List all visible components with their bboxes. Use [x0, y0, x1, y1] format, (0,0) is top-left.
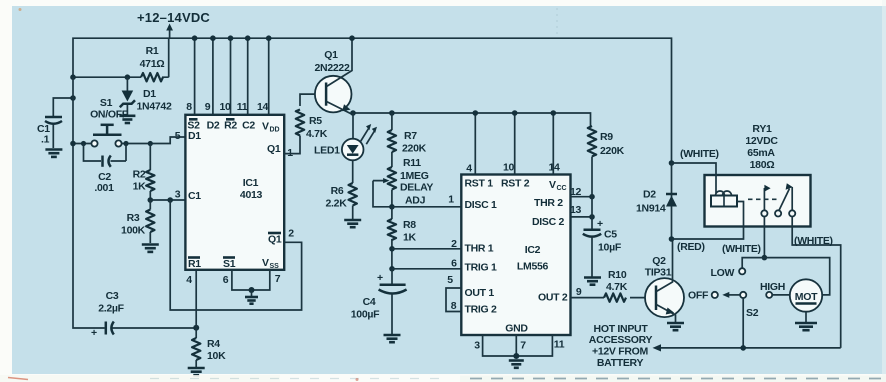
resistor R1 [141, 73, 163, 81]
IC1 pin6/7 ground loop [232, 270, 270, 290]
svg-text:IC2: IC2 [525, 244, 541, 256]
svg-text:+: + [377, 272, 383, 284]
svg-text:ADJ: ADJ [405, 195, 426, 207]
svg-text:THR 1: THR 1 [465, 243, 494, 255]
svg-text:LOW: LOW [711, 267, 735, 279]
ground (R3) [142, 243, 159, 246]
svg-text:2N2222: 2N2222 [315, 62, 350, 74]
wire emitter bus [353, 113, 591, 126]
IC2 top pin wires [475, 113, 553, 175]
svg-text:D1: D1 [143, 88, 156, 100]
svg-text:10: 10 [503, 162, 515, 174]
svg-text:9: 9 [205, 101, 211, 113]
svg-text:180Ω: 180Ω [750, 159, 775, 171]
svg-text:220K: 220K [600, 145, 625, 157]
svg-text:R11: R11 [403, 157, 421, 169]
svg-text:.001: .001 [94, 182, 114, 194]
svg-text:2: 2 [288, 228, 294, 240]
svg-text:RST 1: RST 1 [465, 178, 494, 190]
svg-text:10K: 10K [207, 350, 226, 362]
svg-text:C5: C5 [604, 229, 617, 241]
svg-text:OUT 2: OUT 2 [538, 292, 568, 304]
wire LOW [742, 258, 764, 269]
node RED [669, 236, 675, 242]
IC1 top pin wires [195, 38, 269, 115]
svg-text:5: 5 [447, 274, 453, 286]
wire IC1 pin1 to R5 [284, 136, 300, 154]
svg-text:R2: R2 [224, 120, 237, 132]
svg-text:DD: DD [270, 127, 280, 134]
wire IC1 pin4 [195, 270, 197, 328]
wire contact3 down to battery line [792, 217, 841, 348]
svg-text:2.2µF: 2.2µF [98, 303, 124, 315]
svg-text:10µF: 10µF [598, 242, 622, 254]
svg-text:6: 6 [451, 258, 457, 270]
svg-text:Q1: Q1 [268, 234, 282, 246]
svg-text:GND: GND [505, 323, 528, 335]
svg-text:1MEG: 1MEG [400, 170, 429, 182]
svg-text:14: 14 [257, 101, 269, 113]
svg-text:OUT 1: OUT 1 [465, 287, 495, 299]
svg-text:1K: 1K [133, 181, 147, 193]
svg-text:D2: D2 [643, 189, 656, 201]
svg-text:3: 3 [175, 189, 181, 201]
relay contact 3 [789, 210, 795, 216]
svg-text:TRIG 1: TRIG 1 [465, 262, 497, 274]
IC2 bottom pins + ground [483, 335, 553, 356]
ground (R6) [344, 219, 361, 222]
motor MOT [790, 279, 822, 311]
scan artifacts [882, 0, 886, 382]
svg-text:(WHITE): (WHITE) [722, 243, 761, 255]
svg-text:12VDC: 12VDC [745, 135, 778, 147]
svg-text:C4: C4 [363, 296, 376, 308]
wire pin12 [571, 196, 593, 198]
svg-text:V: V [262, 121, 269, 133]
svg-text:(RED): (RED) [677, 241, 705, 253]
capacitor C4 [391, 269, 393, 284]
svg-text:14: 14 [548, 162, 560, 174]
svg-text:2: 2 [451, 238, 457, 250]
svg-text:R10: R10 [608, 269, 627, 281]
wire to MOT right [764, 258, 829, 295]
resistor R3 [149, 200, 151, 243]
transistor Q1 2N2222 [315, 76, 352, 113]
svg-text:R3: R3 [127, 212, 140, 224]
svg-text:Q2: Q2 [652, 255, 666, 267]
wire pin13 [571, 216, 593, 218]
svg-text:1K: 1K [403, 232, 417, 244]
svg-text:LED1: LED1 [314, 145, 340, 157]
relay RY1 box [705, 175, 811, 227]
wire top rail [73, 38, 672, 163]
capacitor C1 [45, 116, 62, 119]
svg-text:4013: 4013 [240, 189, 263, 201]
svg-text:2.2K: 2.2K [326, 198, 348, 210]
ground (D1) [119, 115, 135, 118]
svg-text:1N914: 1N914 [636, 203, 666, 215]
svg-text:SS: SS [270, 263, 280, 270]
svg-text:V: V [549, 179, 556, 191]
diode D1 (zener 1N4742) [126, 77, 128, 114]
svg-text:R4: R4 [207, 338, 220, 350]
switch S2 [712, 292, 718, 298]
ground (R4) [188, 367, 205, 370]
node R2 bottom [148, 197, 154, 203]
transistor Q2 TIP31 [645, 278, 684, 317]
svg-text:100K: 100K [121, 225, 146, 237]
HIGH contact [766, 292, 772, 298]
svg-text:R6: R6 [331, 185, 344, 197]
resistor R4 [195, 328, 197, 367]
node TRIG1 [389, 266, 395, 272]
svg-text:Q1: Q1 [267, 143, 281, 155]
capacitor C2 [84, 144, 127, 162]
svg-text:100µF: 100µF [351, 309, 380, 321]
svg-text:R9: R9 [600, 131, 613, 143]
svg-text:1: 1 [448, 194, 454, 206]
svg-text:+12–14VDC: +12–14VDC [137, 10, 210, 25]
wire contact1 down [763, 217, 765, 258]
svg-text:4: 4 [466, 163, 472, 175]
diode D2 1N914 [666, 196, 677, 207]
svg-text:11: 11 [554, 339, 565, 351]
svg-text:10: 10 [219, 101, 231, 113]
svg-text:DISC 1: DISC 1 [465, 199, 498, 211]
relay coil [711, 196, 737, 207]
ground (C1) [45, 148, 62, 151]
svg-text:D2: D2 [207, 120, 220, 132]
svg-text:TIP31: TIP31 [645, 267, 672, 279]
svg-text:9: 9 [576, 286, 582, 298]
svg-text:4: 4 [186, 274, 192, 286]
wire OUT2 [571, 297, 605, 299]
relay contact 1 [761, 210, 767, 216]
svg-text:+: + [91, 327, 97, 339]
svg-text:R2: R2 [133, 169, 146, 181]
svg-text:R1: R1 [146, 45, 159, 57]
node rail-left corner [70, 74, 76, 80]
svg-text:S1: S1 [100, 97, 113, 109]
op IC1 box [185, 115, 284, 270]
node WHITE top [669, 160, 675, 166]
svg-text:Q1: Q1 [324, 49, 338, 61]
ground (C4) [384, 334, 401, 337]
svg-text:RST 2: RST 2 [501, 178, 530, 190]
svg-text:THR 2: THR 2 [534, 197, 563, 209]
svg-text:ACCESSORY: ACCESSORY [589, 334, 653, 346]
svg-text:+: + [597, 218, 603, 230]
svg-text:C2: C2 [242, 120, 255, 132]
wire Q1bar feedback [170, 200, 301, 310]
wire OUT1-TRIG2 loop [446, 288, 461, 312]
+12V arrow [169, 28, 171, 38]
svg-text:13: 13 [570, 204, 582, 216]
potentiometer R11 [388, 167, 396, 189]
svg-text:8: 8 [451, 300, 457, 312]
ground (Q2) [667, 322, 684, 325]
svg-text:MOT: MOT [795, 291, 818, 303]
resistor R9 [588, 126, 596, 156]
wire left vertical + bottom C3 run [73, 77, 196, 328]
svg-text:220K: 220K [402, 143, 427, 155]
svg-text:R8: R8 [403, 219, 416, 231]
LED1 [352, 113, 354, 139]
svg-text:S2: S2 [746, 307, 759, 319]
LED arrows [361, 128, 375, 144]
ground (MOT) [805, 312, 807, 322]
wire coil feed [672, 163, 717, 193]
svg-text:R1: R1 [188, 258, 201, 270]
node contact1/low [762, 255, 768, 261]
svg-text:4.7K: 4.7K [306, 128, 328, 140]
svg-text:(WHITE): (WHITE) [680, 148, 719, 160]
svg-text:471Ω: 471Ω [140, 58, 165, 70]
svg-text:3: 3 [474, 340, 480, 352]
svg-text:+12V FROM: +12V FROM [592, 346, 648, 358]
svg-text:C1: C1 [188, 190, 201, 202]
resistor R5 [296, 110, 304, 136]
node R4 top [193, 325, 199, 331]
svg-text:.1: .1 [41, 134, 50, 146]
node THR1 [389, 246, 395, 252]
wire R1 branch [73, 38, 169, 77]
capacitor C3 [105, 322, 108, 335]
svg-text:RY1: RY1 [752, 123, 772, 135]
svg-text:LM556: LM556 [517, 261, 549, 273]
R11 wiper [373, 181, 392, 207]
svg-text:11: 11 [237, 101, 248, 113]
svg-text:65mA: 65mA [747, 147, 775, 159]
svg-text:DISC 2: DISC 2 [532, 216, 565, 228]
resistor R2 [149, 144, 151, 201]
svg-text:R5: R5 [309, 115, 322, 127]
relay dashed link [748, 198, 780, 200]
svg-text:8: 8 [186, 101, 192, 113]
relay contact 2 (armature) [775, 210, 781, 216]
svg-text:TRIG 2: TRIG 2 [465, 304, 497, 316]
ground (C5) [584, 276, 601, 279]
svg-text:CC: CC [557, 185, 567, 192]
resistor R7 [388, 130, 396, 152]
svg-text:(WHITE): (WHITE) [794, 235, 833, 247]
wire D2 leg [671, 163, 673, 239]
svg-text:OFF: OFF [688, 290, 709, 302]
svg-text:7: 7 [520, 340, 526, 352]
svg-text:C3: C3 [106, 290, 119, 302]
svg-text:D1: D1 [188, 130, 201, 142]
wire to IC2 pin1 [392, 206, 461, 208]
resistor R8 [391, 207, 393, 219]
svg-text:BATTERY: BATTERY [597, 357, 644, 369]
svg-text:DELAY: DELAY [400, 182, 433, 194]
svg-text:HIGH: HIGH [760, 281, 785, 293]
wire C1 branch [53, 98, 73, 116]
wire to IC1 pin3 [150, 199, 185, 201]
resistor R6 [349, 183, 357, 205]
resistor R10 [604, 293, 626, 301]
svg-text:IC1: IC1 [243, 177, 259, 189]
svg-text:1N4742: 1N4742 [137, 101, 172, 113]
svg-text:4.7K: 4.7K [606, 281, 628, 293]
svg-text:V: V [262, 257, 269, 269]
battery feed line [659, 347, 841, 349]
svg-text:S1: S1 [223, 258, 236, 270]
svg-text:6: 6 [223, 274, 229, 286]
svg-text:5: 5 [175, 130, 181, 142]
op IC2 box [461, 175, 570, 336]
svg-text:R7: R7 [404, 130, 417, 142]
svg-text:ON/OFF: ON/OFF [90, 109, 129, 121]
node D1 tap [125, 74, 131, 80]
svg-text:7: 7 [275, 273, 281, 285]
